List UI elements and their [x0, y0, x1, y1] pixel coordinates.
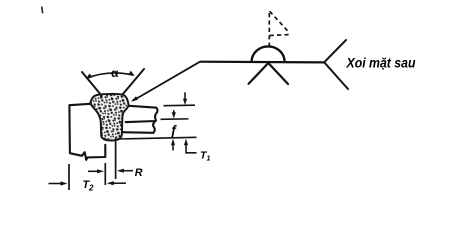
up arrow onto line 3: [172, 144, 174, 151]
field flag dashed stem: [268, 11, 270, 47]
stray mark top-left: [41, 7, 44, 12]
weld bead (stippled mushroom): [90, 94, 128, 141]
T2 left extension line: [68, 164, 70, 190]
svg-text:1: 1: [207, 156, 211, 163]
left plate: [69, 104, 105, 160]
T1 arrow with bent leader: [186, 144, 197, 153]
R left arrow: [88, 170, 99, 172]
reference line: [200, 61, 325, 64]
tail fork: [324, 40, 348, 89]
T2 left arrow: [49, 183, 63, 185]
alpha left line: [82, 72, 102, 96]
right lower plate: [122, 121, 155, 133]
down arrow onto line 2: [173, 110, 175, 114]
down arrow onto line 1: [184, 92, 186, 100]
svg-text:R: R: [135, 167, 143, 179]
svg-text:α: α: [111, 66, 119, 80]
alpha dimension arc: [87, 73, 134, 78]
T2 right arrow: [112, 182, 126, 184]
alpha arc left arrowhead: [86, 74, 92, 79]
leader line: [133, 62, 200, 101]
right upper plate: [126, 106, 158, 122]
leader arrowhead: [131, 96, 138, 101]
R right extension line: [115, 138, 117, 179]
extension line 2 (seam): [161, 118, 189, 120]
T2 right extension line: [104, 163, 106, 185]
V-groove symbol below line: [249, 63, 288, 84]
svg-text:2: 2: [88, 184, 94, 192]
alpha arc right arrowhead: [129, 71, 135, 76]
R right arrow: [122, 170, 133, 172]
extension line 1 (plate top): [164, 104, 196, 107]
back weld dome: [252, 46, 285, 61]
svg-text:Xoi mặt sau: Xoi mặt sau: [346, 55, 416, 71]
extension line 3 (weld root): [117, 137, 196, 139]
svg-text:ƒ: ƒ: [170, 123, 177, 138]
field flag dashed triangle: [270, 11, 290, 35]
alpha right line: [122, 69, 144, 95]
